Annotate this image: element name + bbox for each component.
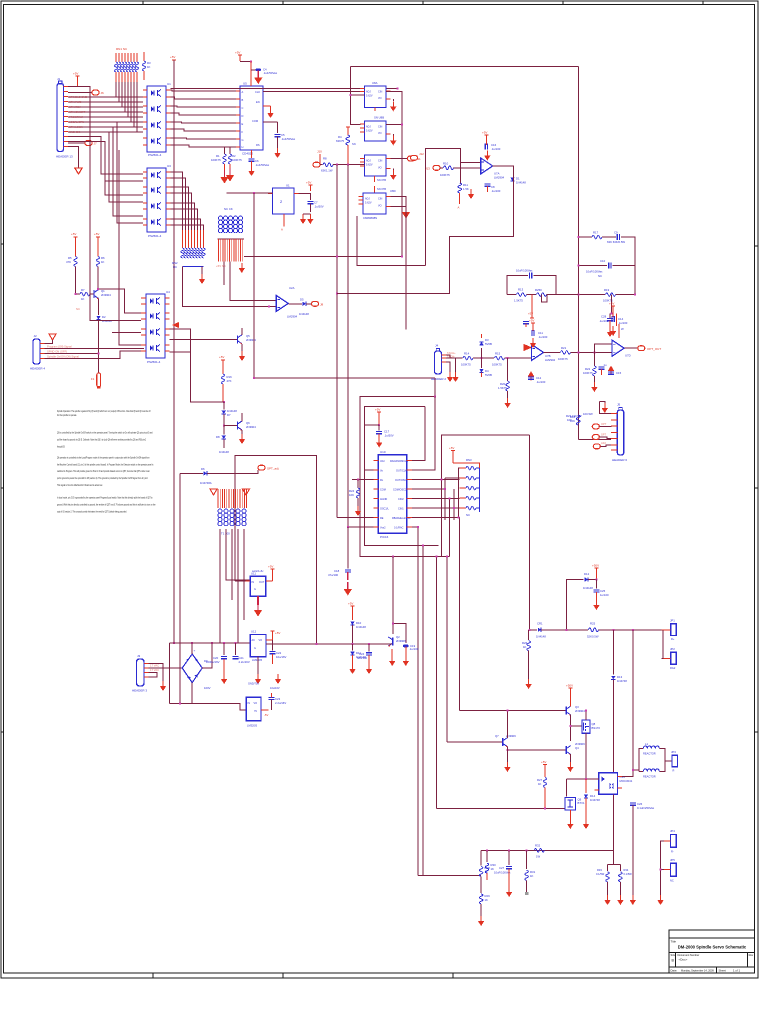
cap C26 on vertical: [630, 802, 655, 905]
main DC rail horizontal: [169, 642, 250, 644]
svg-text:1N4148: 1N4148: [536, 635, 546, 639]
junction dot U6 wire: [253, 192, 255, 194]
svg-text:U8D: U8D: [390, 189, 396, 193]
svg-text:PS2501-4: PS2501-4: [147, 360, 161, 364]
resistor R23 50.5W left of J5: [566, 414, 582, 422]
wire U5 clk out to comparator U8A: [263, 90, 365, 92]
title block row line 2: [669, 952, 755, 954]
net bubble J6 on J1 pin 2: [68, 90, 104, 95]
regulator U11: [246, 569, 273, 596]
wire J1 pin13 to ground: [68, 147, 79, 168]
svg-text:J3: J3: [137, 654, 141, 658]
svg-text:JP1: JP1: [670, 619, 675, 623]
junction dot pin8: [347, 526, 349, 528]
svg-text:10K: 10K: [567, 418, 572, 422]
transistor Q4 lower: [506, 742, 585, 772]
svg-text:1K: 1K: [485, 898, 489, 902]
svg-text:R25: R25: [590, 622, 596, 626]
svg-text:+5V: +5V: [94, 232, 99, 236]
svg-text:CIN: CIN: [378, 198, 383, 201]
transistor Q3: [459, 684, 585, 742]
cap C18 feed down: [328, 527, 352, 596]
svg-text:100K75: 100K75: [461, 363, 471, 367]
zone tick top 5: [702, 1, 704, 5]
wire RN2 bus to opamp U2A minus input: [183, 267, 277, 307]
T1 secondary lead wires down: [220, 529, 250, 643]
svg-text:Size: Size: [671, 953, 677, 957]
svg-text:CIN: CIN: [378, 91, 383, 94]
svg-text:+5V: +5V: [306, 181, 311, 185]
wire U4 out right staircase down: [170, 352, 224, 402]
svg-text:CIN: CIN: [378, 160, 383, 163]
wire B horizontal: [418, 875, 481, 877]
left +5V rail wire (long vertical): [173, 60, 175, 643]
net bubble OPT_OUT: [624, 346, 661, 351]
svg-text:C9: C9: [614, 231, 618, 235]
svg-text:SN 07B: SN 07B: [377, 187, 386, 191]
svg-text:RN1 NC: RN1 NC: [116, 47, 128, 51]
zone tick right 1: [755, 245, 759, 247]
svg-text:for the spindle to operate.: for the spindle to operate.: [57, 413, 77, 417]
svg-text:NC: NC: [173, 265, 177, 269]
svg-text:NC: NC: [466, 513, 470, 517]
wire right rail from top wire down: [577, 67, 579, 440]
svg-text:5V6B: 5V6B: [485, 342, 492, 346]
op-amp U7D: [612, 340, 631, 357]
junction dot D7/Q6: [223, 425, 225, 427]
svg-text:+5V: +5V: [449, 446, 454, 450]
wire Q1 emitter chain with diode D2: [96, 299, 112, 373]
svg-text:EN: EN: [256, 100, 260, 104]
opto U1 pin stubs: [143, 90, 171, 145]
connector J2: [30, 334, 45, 371]
tach input wire with R14: [446, 352, 494, 367]
T1 hatch primary leads: [218, 489, 247, 508]
junction dot return rail: [179, 703, 181, 705]
ground arrow right of U8A: [390, 99, 396, 112]
svg-text:+5V: +5V: [235, 51, 240, 55]
wire U10 pin3 left with R24: [349, 479, 374, 517]
svg-text:Vss2: Vss2: [380, 527, 386, 530]
svg-text:CLK: CLK: [255, 90, 260, 94]
zone tick bottom 2: [282, 973, 284, 978]
series stubs between U8C and U8D: [375, 176, 387, 193]
svg-text:ADJ: ADJ: [366, 91, 371, 94]
svg-text:1u/100: 1u/100: [600, 593, 609, 597]
svg-text:1 of 1: 1 of 1: [733, 969, 740, 973]
diode D1 below U7A output: [510, 177, 526, 185]
wire U10 pin8 left with cap C18: [348, 526, 374, 528]
ground arrows below C7: [300, 214, 314, 224]
wire U10 pin7 left long: [337, 517, 374, 519]
svg-text:OSC1/L: OSC1/L: [380, 508, 390, 511]
svg-text:1000u/16V: 1000u/16V: [206, 660, 220, 664]
cap C24 below rail: [357, 644, 372, 674]
svg-text:J5: J5: [617, 403, 621, 407]
svg-text:.1u/100: .1u/100: [491, 189, 501, 193]
svg-text:PIC16: PIC16: [380, 535, 389, 539]
svg-text:1N4148: 1N4148: [516, 181, 526, 185]
junction dot Q1/U4 wire: [97, 288, 99, 290]
svg-text:.1u/50V: .1u/50V: [314, 205, 324, 209]
capacitor C8 below U7A: [485, 184, 501, 193]
svg-text:R14: R14: [464, 352, 470, 356]
resistor R20 to ground: [498, 358, 511, 408]
svg-text:pull the board to ground via Q: pull the board to ground via Q5 D. Catho…: [57, 437, 146, 441]
svg-text:RG2: RG2: [670, 666, 676, 670]
fuse F1: [91, 373, 101, 389]
svg-text:2N3906: 2N3906: [396, 639, 406, 643]
bottom return rail: [169, 704, 246, 710]
cap C20 1000u: [206, 642, 227, 684]
svg-text:D12: D12: [584, 572, 590, 576]
svg-text:J4: J4: [435, 344, 439, 348]
ground arrow below C4: [254, 71, 262, 85]
connector J4 TACH: [431, 344, 456, 382]
svg-text:1N4748: 1N4748: [617, 679, 627, 683]
connector J5: [611, 403, 627, 463]
svg-text:47K: 47K: [66, 260, 71, 264]
capacitor C4 at U5 top: [251, 68, 277, 76]
svg-text:H: H: [242, 145, 244, 149]
svg-text:In local mode, pin J3.3 is gro: In local mode, pin J3.3 is grounded by t…: [57, 496, 153, 500]
svg-text:0.1uF/250Vax: 0.1uF/250Vax: [637, 806, 655, 810]
svg-text:5.62V: 5.62V: [366, 95, 373, 98]
T2 lead down short: [223, 262, 225, 286]
svg-text:GND/700: GND/700: [248, 682, 259, 686]
bridge rectifier D9: [182, 649, 210, 691]
wire into U7D plus: [594, 344, 612, 353]
U10 right pin stubs: [407, 461, 412, 528]
svg-text:G: G: [254, 647, 256, 650]
svg-text:100K75: 100K75: [583, 371, 593, 375]
junction dot long wire: [397, 88, 399, 90]
svg-text:Q4: Q4: [575, 746, 579, 750]
wire A horizontal: [481, 849, 613, 851]
svg-text:1W: 1W: [536, 855, 541, 859]
ground open arrow below J1: [75, 168, 82, 174]
svg-text:J6: J6: [101, 91, 105, 95]
svg-text:+5V: +5V: [528, 312, 533, 316]
power stub +5V above R16: [219, 355, 225, 366]
wire bus opto U1 to U5 staircase: [171, 90, 237, 147]
svg-text:VO: VO: [259, 639, 263, 642]
capacitor C17 above U10: [365, 412, 394, 448]
net bubble J7 on J1 pin 12: [68, 141, 97, 146]
cap C21 2.2u: [232, 642, 250, 664]
junction dots main row: [529, 629, 531, 631]
svg-text:1.5K: 1.5K: [463, 187, 469, 191]
svg-text:63K 63K/0.5W: 63K 63K/0.5W: [607, 240, 625, 244]
svg-text:Date:: Date:: [671, 969, 678, 973]
svg-text:52K0.5W: 52K0.5W: [587, 635, 599, 639]
svg-text:10uF/100Vax: 10uF/100Vax: [586, 270, 603, 274]
svg-text:NC: NC: [598, 274, 602, 278]
svg-text:.1u/100: .1u/100: [491, 147, 501, 151]
resistor R7 1K base: [76, 288, 95, 301]
svg-text:SPT_adj: SPT_adj: [267, 467, 279, 471]
connector JP4: [664, 829, 676, 854]
ground arrow right of U8B: [390, 134, 396, 146]
svg-text:BTV1: BTV1: [578, 801, 585, 805]
svg-text:1N4148: 1N4148: [356, 625, 366, 629]
J2 signal name texts: [47, 345, 79, 359]
zone tick left 3: [1, 731, 4, 733]
resistor network RN3: [449, 446, 480, 517]
power stub above C17: [375, 408, 381, 419]
resistor R32 on wire A: [534, 844, 544, 859]
title block cell divider sheet: [716, 967, 718, 973]
wire down to triac Q9: [565, 779, 567, 797]
svg-text:0.1/5W: 0.1/5W: [624, 872, 633, 876]
svg-text:100.5W: 100.5W: [583, 412, 593, 416]
resistor R27 1K: [537, 760, 547, 809]
svg-text:100V: 100V: [204, 686, 211, 690]
svg-text:R19: R19: [604, 288, 610, 292]
svg-text:Spindle On/Off (Off) Signal: Spindle On/Off (Off) Signal: [47, 355, 79, 359]
long wire crystal bus: [254, 377, 435, 379]
svg-text:2N3904: 2N3904: [575, 709, 585, 713]
wire L-shape from Q5 base rail down: [191, 339, 224, 402]
small cap below RC block: [523, 322, 529, 328]
inner wire rect: [365, 406, 439, 545]
svg-text:HEADER 6: HEADER 6: [612, 458, 627, 462]
Q5 collector stub: [241, 328, 243, 335]
svg-text:RA0/AN0/MCLR: RA0/AN0/MCLR: [390, 460, 408, 463]
svg-text:1.5K75: 1.5K75: [498, 386, 507, 390]
T1 secondary loops: [218, 509, 246, 526]
junction dots on bus: [440, 479, 442, 481]
wire U4 out upper right: [170, 329, 191, 339]
svg-text:COM: COM: [252, 119, 258, 123]
power stub above C7: [306, 181, 312, 192]
opto U4 pin stubs: [141, 298, 170, 351]
wire vertical rail from D6 down to bridge: [179, 473, 181, 703]
svg-text:.1u/100: .1u/100: [599, 319, 609, 323]
RN1 leads down to bus wires: [116, 82, 137, 132]
op-amp U2A: [276, 286, 297, 319]
svg-text:pull to ground to power the op: pull to ground to power the opto LED in …: [57, 476, 148, 480]
wire right rail bottom into J5: [578, 439, 611, 441]
wire U6 junction down to long bus: [253, 193, 255, 378]
svg-text:SPT: SPT: [601, 433, 606, 437]
svg-text:.1uF/50Vax: .1uF/50Vax: [255, 163, 270, 167]
svg-text:1N4748A: 1N4748A: [200, 481, 212, 485]
svg-text:F1: F1: [91, 377, 95, 381]
cap C22 right of U12: [269, 640, 286, 664]
ground arrow below C16: [484, 151, 490, 161]
connector JP1: [662, 619, 677, 642]
ground open arrow left of T1: [210, 489, 217, 495]
ground open arrow right of T1: [243, 489, 250, 495]
junction dot ladder row3 right: [634, 294, 636, 296]
svg-text:2N3904: 2N3904: [246, 338, 256, 342]
wire J2 pin3 to fuse chain: [45, 353, 99, 355]
svg-text:HEADER 3: HEADER 3: [132, 689, 147, 693]
junction dot bridge top: [191, 642, 193, 644]
cap arrow below U7D: [608, 366, 622, 376]
triac Q9: [436, 798, 585, 830]
cap and arrow below U7B: [528, 371, 546, 384]
svg-text:.1u/100: .1u/100: [618, 321, 628, 325]
svg-text:D6: D6: [201, 467, 205, 471]
svg-text:5V6B: 5V6B: [485, 373, 492, 377]
svg-text:B: B: [672, 959, 675, 963]
svg-text:R250: R250: [535, 288, 542, 292]
wire from top bus into U8B input: [350, 67, 360, 125]
junction dots wire A: [486, 849, 488, 851]
wire upper branch with diode CR2: [566, 564, 609, 630]
power stub and cap above U7A: [482, 131, 488, 146]
junction dot U8A pin3 tap: [349, 94, 351, 96]
svg-text:17 VAC: 17 VAC: [150, 664, 159, 668]
svg-text:SN U8B: SN U8B: [374, 116, 384, 120]
svg-text:R: R: [673, 769, 675, 773]
comparator U8B: [360, 116, 391, 142]
svg-text:.1u/100: .1u/100: [536, 380, 546, 384]
svg-text:LM320/5: LM320/5: [247, 724, 258, 728]
mosfet Q8: [569, 710, 600, 779]
diode D5 on opamp output: [288, 298, 311, 317]
feedback box around R10: [426, 149, 461, 266]
junction dots main rail: [316, 643, 318, 645]
svg-text:LM2904: LM2904: [494, 176, 505, 180]
svg-text:10uF/100Vax: 10uF/100Vax: [494, 871, 511, 875]
svg-text:CIN: CIN: [378, 126, 383, 129]
svg-text:R34: R34: [624, 868, 629, 872]
svg-text:OUT: OUT: [259, 581, 265, 584]
svg-text:+50V: +50V: [592, 564, 599, 568]
svg-text:switched to Program. This wil: switched to Program. This will provide g…: [57, 469, 150, 473]
svg-text:10K: 10K: [349, 493, 354, 497]
svg-text:Document Number: Document Number: [678, 953, 700, 957]
resistor pack RN2: [172, 230, 205, 269]
junction dot ladder row1: [577, 236, 579, 238]
svg-text:0.1/5W: 0.1/5W: [596, 872, 605, 876]
reactor block L1: [622, 742, 672, 779]
svg-text:R17: R17: [593, 231, 599, 235]
svg-text:ADJ: ADJ: [365, 198, 370, 201]
net bubble J10 with resistor R8 into U8C: [313, 150, 365, 173]
svg-text:through D8.: through D8.: [57, 444, 65, 448]
svg-text:Title: Title: [671, 940, 677, 944]
IC U5 counter: [240, 82, 263, 156]
wire opto U14 down to wire A: [612, 794, 614, 850]
resistor R30 left: [485, 850, 496, 880]
svg-text:D: D: [242, 114, 244, 118]
svg-text:ADJ: ADJ: [366, 160, 371, 163]
zone tick bottom 1: [152, 973, 154, 978]
red led arrow right of U4: [172, 322, 179, 328]
svg-text:HEADER 4: HEADER 4: [30, 367, 45, 371]
svg-text:5.62V: 5.62V: [365, 202, 372, 205]
resistor R3 1K top: [142, 52, 151, 80]
resistor R15: [492, 352, 532, 367]
RC ladder row 1 wire: [578, 231, 635, 295]
svg-text:MOC3041: MOC3041: [620, 779, 633, 783]
svg-text:Rev: Rev: [749, 953, 754, 957]
svg-text:C28: C28: [601, 315, 607, 319]
svg-text:AGND: AGND: [380, 498, 387, 501]
net bubble into J5 pin6: [593, 441, 611, 449]
svg-text:+: +: [194, 649, 196, 653]
T2 lead down to opamp U2A plus input: [230, 262, 276, 301]
svg-text:LM2904: LM2904: [287, 315, 298, 319]
svg-text:U4: U4: [166, 290, 170, 294]
RC filter block: [507, 269, 578, 303]
svg-text:OUT/CLk: OUT/CLk: [396, 470, 407, 473]
wire bus right of U10 pin group: [412, 480, 459, 528]
transistor Q7 left: [447, 710, 516, 773]
ground arrow below Q6: [239, 430, 245, 444]
junction dots below U10: [417, 526, 419, 528]
svg-text:100K75: 100K75: [232, 158, 242, 162]
svg-text:2.2u/16V: 2.2u/16V: [239, 660, 250, 664]
svg-text:.1u/100: .1u/100: [538, 335, 548, 339]
capacitor C27: [494, 850, 512, 897]
svg-text:Q6 operation is controlled via: Q6 operation is controlled via the Local…: [57, 455, 150, 459]
svg-text:G: G: [254, 588, 256, 591]
svg-text:Q7: Q7: [495, 734, 499, 738]
junction dot R5/R7: [75, 293, 77, 295]
svg-text:SPND ON (OFF): SPND ON (OFF): [47, 350, 67, 354]
wire U7A output feedback loop: [337, 166, 513, 294]
bridge wire box: [169, 643, 212, 704]
svg-text:100K75: 100K75: [440, 173, 450, 177]
svg-text:E: E: [242, 122, 244, 126]
diode D8 below junction: [216, 426, 229, 455]
junction dot R20 node: [507, 357, 509, 359]
zone tick left 1: [1, 243, 4, 245]
svg-text:Vdd: Vdd: [380, 460, 385, 463]
resistor R28 divider top: [479, 850, 490, 893]
svg-text:U3: U3: [167, 164, 171, 168]
svg-text:.1uF/50Vax: .1uF/50Vax: [263, 71, 278, 75]
junction dot opamp input wire: [268, 306, 270, 308]
junction dot rail x337 mid wire: [336, 256, 338, 258]
diode D10 above main rail: [348, 602, 366, 645]
diode D7 series: [222, 402, 238, 426]
outer wire rect: [360, 378, 450, 557]
svg-text:D7: D7: [227, 413, 231, 417]
svg-text:+5V: +5V: [541, 760, 546, 764]
svg-text:17 VAC: 17 VAC: [150, 668, 159, 672]
wire U8A out down: [386, 91, 402, 256]
diode D3 up: [479, 334, 492, 358]
resistor R6 1K: [96, 237, 105, 289]
J1 pin net name texts: [69, 95, 87, 134]
svg-text:U2A: U2A: [289, 286, 295, 290]
J3 wires to bridge: [149, 664, 183, 682]
net bubble into J5 pin4: [592, 433, 611, 440]
svg-text:+5V: +5V: [268, 565, 273, 569]
wire U10 pin2 left: [365, 469, 374, 471]
svg-text:1u: 1u: [604, 363, 607, 367]
svg-text:100K75: 100K75: [211, 158, 221, 162]
svg-text:DM-2000 Spindle Servo Schemati: DM-2000 Spindle Servo Schematic: [678, 945, 747, 950]
main wire row with diode CR1 and R25: [530, 622, 662, 639]
svg-text:63K75: 63K75: [336, 139, 345, 143]
long top wire: [350, 66, 578, 68]
ground arrow right of U8C: [390, 169, 396, 181]
capacitor C28 below ladder: [599, 295, 624, 338]
connector JP2: [662, 647, 677, 670]
svg-text:PS2501-4: PS2501-4: [148, 234, 162, 238]
red arrow left of U7B: [524, 345, 531, 351]
svg-text:J8: J8: [320, 303, 324, 307]
wire tap to U8A pin3: [350, 94, 364, 96]
wire bus opto U3 to RN2 staircase: [171, 172, 204, 230]
